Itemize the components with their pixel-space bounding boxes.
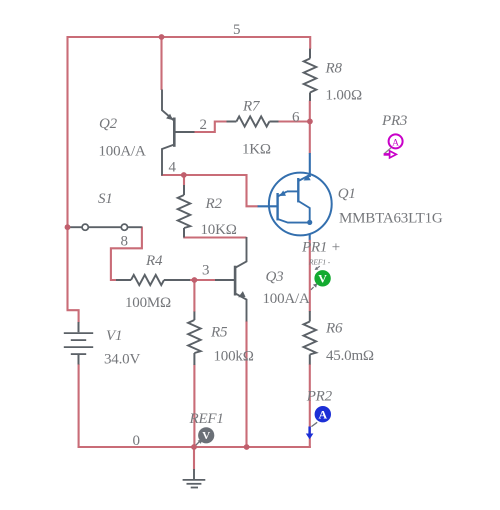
battery V1 xyxy=(64,322,141,368)
svg-text:A: A xyxy=(392,138,399,148)
resistor R7 xyxy=(227,99,279,158)
node 2 label xyxy=(200,117,208,133)
node 0 label xyxy=(133,433,141,449)
svg-text:PR3: PR3 xyxy=(381,113,407,129)
ground xyxy=(183,469,206,488)
resistor R4 xyxy=(116,253,190,311)
wire net5 top horizontal xyxy=(68,36,311,38)
svg-text:R7: R7 xyxy=(242,99,261,115)
wire net5 to Q2 emitter xyxy=(160,36,162,90)
wire Q1 collector top blue segment xyxy=(309,153,311,177)
wire right riser R6 to bottom rail xyxy=(309,364,311,448)
svg-text:1KΩ: 1KΩ xyxy=(242,142,271,158)
svg-text:REF1 -: REF1 - xyxy=(308,258,331,267)
resistor R8 xyxy=(304,49,362,104)
svg-text:S1: S1 xyxy=(98,191,113,207)
svg-text:0: 0 xyxy=(133,433,141,449)
svg-text:V1: V1 xyxy=(106,328,122,344)
svg-text:100A/A: 100A/A xyxy=(263,291,311,307)
svg-text:100A/A: 100A/A xyxy=(99,144,147,160)
svg-text:V: V xyxy=(202,430,210,442)
probe PR1 green voltage xyxy=(301,240,341,290)
wire R2 top stub xyxy=(183,175,185,186)
wire Q1 base blue segment xyxy=(258,205,278,207)
resistor R2 xyxy=(178,185,237,238)
svg-text:4: 4 xyxy=(169,160,177,176)
junction S1 left dot xyxy=(65,224,71,230)
wire node 3 to R5 xyxy=(193,280,195,312)
svg-text:100kΩ: 100kΩ xyxy=(214,349,254,365)
junction node 4 dot xyxy=(181,172,187,178)
probe PR3 magenta current unconnected xyxy=(381,113,407,158)
svg-text:2: 2 xyxy=(200,117,208,133)
wire node 2 Q2 base to R7 xyxy=(194,122,227,133)
wire bottom rail xyxy=(78,446,311,448)
svg-text:Q3: Q3 xyxy=(266,269,284,285)
wire R7 to node 6 xyxy=(278,120,310,122)
wire R5 to bottom rail xyxy=(193,365,195,448)
wire left vertical rail xyxy=(66,36,68,310)
resistor R5 xyxy=(188,312,254,366)
svg-text:R8: R8 xyxy=(325,61,343,77)
switch S1 xyxy=(68,191,142,230)
node 4 label xyxy=(169,160,177,176)
transistor Q2 PNP xyxy=(99,90,195,176)
svg-text:A: A xyxy=(318,408,327,422)
svg-text:PR2: PR2 xyxy=(306,389,333,405)
svg-text:REF1: REF1 xyxy=(189,411,224,427)
svg-text:R5: R5 xyxy=(210,325,228,341)
svg-text:Q2: Q2 xyxy=(99,116,118,132)
junction node 5 dot xyxy=(159,34,165,40)
svg-text:R4: R4 xyxy=(145,253,163,269)
probe REF1 voltage xyxy=(189,411,224,447)
wire battery top jog xyxy=(67,310,79,322)
transistor Q3 NPN xyxy=(215,237,310,322)
svg-text:5: 5 xyxy=(233,22,241,38)
probe PR2 blue current xyxy=(306,389,333,440)
svg-text:R2: R2 xyxy=(205,196,223,212)
svg-text:PR1 +: PR1 + xyxy=(301,240,341,256)
junction node 6 dot xyxy=(307,119,313,125)
wire R4 to node 3 xyxy=(190,279,197,281)
wire node 4 horizontal to Q1 base xyxy=(161,175,258,206)
node 3 label xyxy=(202,263,210,279)
junction ground dot xyxy=(191,444,197,450)
svg-text:3: 3 xyxy=(202,263,210,279)
wire Q1 to R6 xyxy=(309,240,311,312)
svg-text:100MΩ: 100MΩ xyxy=(125,295,171,311)
svg-text:6: 6 xyxy=(292,110,300,126)
wire Q3 emitter to bottom rail xyxy=(245,321,247,447)
junction Q3 emitter bottom dot xyxy=(244,444,250,450)
wire S1 to R4 jogs xyxy=(111,227,142,281)
svg-text:V: V xyxy=(318,272,327,286)
svg-text:MMBTA63LT1G: MMBTA63LT1G xyxy=(339,211,443,227)
wire R2 bottom to Q3 collector xyxy=(183,236,246,238)
svg-text:Q1: Q1 xyxy=(338,186,356,202)
wire Q1 collector bottom blue segment xyxy=(309,235,311,241)
svg-text:34.0V: 34.0V xyxy=(104,352,140,368)
wire battery bottom xyxy=(78,364,80,448)
svg-text:R6: R6 xyxy=(325,321,343,337)
resistor R6 xyxy=(304,311,374,365)
wire R8 bottom through node 6 to Q1 xyxy=(309,101,311,154)
svg-text:10KΩ: 10KΩ xyxy=(201,222,237,238)
wire R8 top stub xyxy=(309,36,311,49)
op-amp circle Q1 darlington MMBTA63LT1G xyxy=(269,173,443,236)
svg-text:1.00Ω: 1.00Ω xyxy=(326,88,362,104)
node 5 label xyxy=(233,22,241,38)
wire node 3 to Q3 base xyxy=(194,279,215,281)
wire ground stem xyxy=(193,446,195,470)
node 8 label xyxy=(121,234,129,250)
svg-text:45.0mΩ: 45.0mΩ xyxy=(326,348,374,364)
junction node 3 dot xyxy=(192,277,198,283)
node 6 label xyxy=(292,110,300,126)
svg-text:8: 8 xyxy=(121,234,129,250)
